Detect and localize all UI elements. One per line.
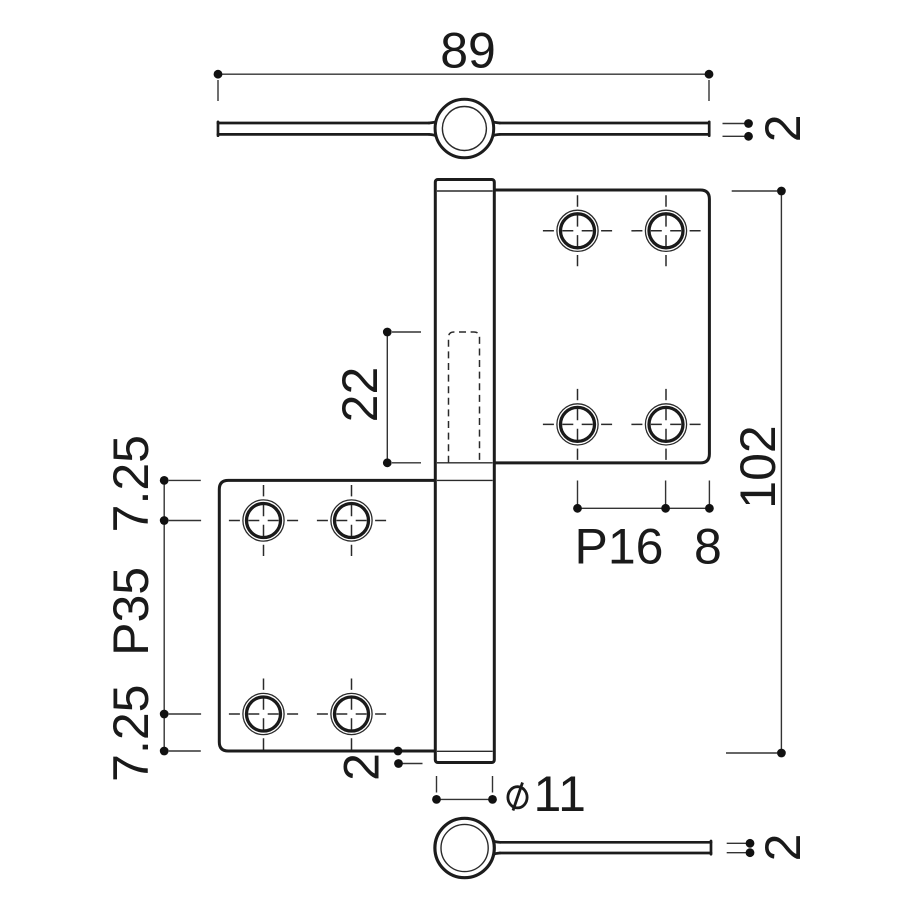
dim dot at plate bottom <box>394 747 403 756</box>
dim dot 89 left <box>214 70 223 79</box>
leader lower of thickness dim <box>723 135 749 137</box>
hole L3 bore circle <box>247 697 281 731</box>
fillet bottom of ring junction <box>487 853 501 860</box>
leader upper of thickness dim <box>723 123 749 125</box>
hole L3 crosshair horizontal <box>229 713 298 715</box>
top view leaf bar right end cap <box>708 122 711 136</box>
knuckle pin bore circle (top view) <box>442 107 486 151</box>
dim dot bottom-view top <box>746 839 755 848</box>
extension line from hole column 2 <box>665 481 667 512</box>
hole L3 crosshair vertical <box>263 679 265 750</box>
barrel crossing line at upper plate top level <box>437 190 493 192</box>
hole U3 crosshair horizontal <box>543 423 612 425</box>
dim dot plate top <box>160 476 169 485</box>
barrel crossing line at lower plate bottom level <box>437 750 493 752</box>
ring inner circle (bottom view) <box>441 824 488 871</box>
barrel / knuckle column <box>435 180 494 763</box>
top view leaf bar left end cap <box>217 122 220 136</box>
hole U4 crosshair vertical <box>665 389 667 460</box>
hole L1 countersink circle <box>243 500 284 541</box>
hole L2 crosshair horizontal <box>317 520 386 522</box>
svg-text:7.25: 7.25 <box>103 685 159 782</box>
dim dot at barrel bottom <box>394 759 403 768</box>
top view leaf bar top edge (left segment) <box>218 122 429 125</box>
dim line P16/8 <box>578 507 710 509</box>
svg-text:P35: P35 <box>103 567 159 656</box>
svg-text:11: 11 <box>534 766 587 822</box>
fillet bottom-right of knuckle <box>486 134 500 141</box>
hole U3 crosshair vertical <box>577 389 579 460</box>
fillet top-left of knuckle <box>429 116 443 123</box>
top view leaf bar bottom edge (left segment) <box>218 133 429 136</box>
leader lower bottom-view thickness <box>727 852 749 854</box>
dim dot phi11 left <box>432 795 441 804</box>
dim dot 22 bottom <box>383 458 392 467</box>
hole L4 crosshair vertical <box>351 679 353 750</box>
dim dot P16 right <box>661 504 670 513</box>
extension line upper hole row <box>169 520 201 522</box>
dim dot plate bottom <box>160 747 169 756</box>
dim dot 89 right <box>705 70 714 79</box>
svg-text:2: 2 <box>334 753 390 781</box>
bottom view bar top edge <box>500 841 711 844</box>
dim dot 8 right <box>705 504 714 513</box>
svg-text:102: 102 <box>730 425 786 508</box>
knuckle outer circle (top view) <box>435 99 494 158</box>
hole L1 crosshair horizontal <box>229 520 298 522</box>
hole U2 crosshair horizontal <box>631 230 700 232</box>
barrel crossing line at lower plate top level <box>437 479 493 481</box>
dim line phi11 <box>437 798 493 800</box>
top view leaf bar top edge (right segment) <box>500 122 709 125</box>
fillet top-right of knuckle <box>486 116 500 123</box>
fillet bottom-left of knuckle <box>429 134 443 141</box>
lower leaf plate outline <box>219 480 435 751</box>
extension line plate top <box>169 479 201 481</box>
hole L2 bore circle <box>335 504 369 538</box>
hole U3 countersink circle <box>557 404 598 445</box>
barrel crossing line at upper plate bottom level <box>437 462 493 464</box>
dim dot 102 bottom <box>777 749 786 758</box>
hole L2 crosshair vertical <box>351 485 353 556</box>
svg-text:2: 2 <box>755 834 811 862</box>
dim dot 22 top <box>383 328 392 337</box>
extension line lower hole row <box>169 713 201 715</box>
hole L3 countersink circle <box>243 693 284 734</box>
leader to barrel bottom <box>402 763 423 765</box>
hole L4 crosshair horizontal <box>317 713 386 715</box>
hole U1 countersink circle <box>557 210 598 251</box>
dim dot thickness bottom <box>744 132 753 141</box>
dim dot P16 left <box>573 504 582 513</box>
dim dot bottom-view bottom <box>746 848 755 857</box>
hole U4 bore circle <box>649 407 683 441</box>
extension line phi11 right <box>492 776 494 793</box>
hole U3 bore circle <box>561 407 595 441</box>
svg-text:P16: P16 <box>575 519 664 575</box>
svg-text:8: 8 <box>694 519 722 575</box>
leader upper bottom-view thickness <box>727 842 749 844</box>
hidden pin hole (dashed) in barrel <box>449 332 480 463</box>
top view leaf bar bottom edge (right segment) <box>500 133 709 136</box>
extension stub right of dim 89 <box>708 80 710 101</box>
hole U4 countersink circle <box>645 404 686 445</box>
extension line 102 top <box>732 190 777 192</box>
extension line plate bottom <box>169 750 201 752</box>
svg-text:7.25: 7.25 <box>103 435 159 532</box>
left chain dimension line <box>163 480 165 751</box>
dim dot upper hole row <box>160 516 169 525</box>
hole U4 crosshair horizontal <box>631 423 700 425</box>
hole L1 bore circle <box>247 504 281 538</box>
hole L4 countersink circle <box>331 693 372 734</box>
svg-text:2: 2 <box>755 114 811 142</box>
hole L1 crosshair vertical <box>263 485 265 556</box>
hole U2 bore circle <box>649 214 683 248</box>
extension line from hole column 1 <box>577 481 579 512</box>
svg-text:89: 89 <box>440 23 496 79</box>
svg-text:22: 22 <box>332 367 388 423</box>
extension stub left of dim 89 <box>217 80 219 101</box>
extension line phi11 left <box>436 776 438 793</box>
fillet top of ring junction <box>487 836 501 843</box>
upper leaf plate outline <box>494 190 709 463</box>
hole L2 countersink circle <box>331 500 372 541</box>
hole L4 bore circle <box>335 697 369 731</box>
ring outer circle (bottom view) <box>435 818 494 877</box>
extension line 22 top <box>392 331 421 333</box>
hole U2 crosshair vertical <box>665 195 667 266</box>
hole U1 bore circle <box>561 214 595 248</box>
extension line from plate right edge <box>708 481 710 512</box>
dim dot 102 top <box>777 187 786 196</box>
hole U2 countersink circle <box>645 210 686 251</box>
bottom view bar right end cap <box>710 841 713 854</box>
dimension line 89 <box>218 73 709 75</box>
hole U1 crosshair vertical <box>577 195 579 266</box>
dim dot lower hole row <box>160 710 169 719</box>
dim line 102 vertical <box>780 191 782 753</box>
hole U1 crosshair horizontal <box>543 230 612 232</box>
dim dot thickness top <box>744 119 753 128</box>
dim line 22 vertical <box>386 332 388 463</box>
phi symbol <box>508 787 527 808</box>
bottom view bar bottom edge <box>500 852 711 855</box>
extension line 102 bottom <box>726 752 777 754</box>
extension line 22 bottom <box>392 462 421 464</box>
dim dot phi11 right <box>488 795 497 804</box>
